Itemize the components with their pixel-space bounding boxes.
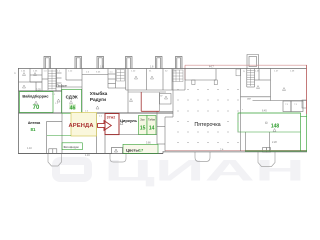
svg-text:2.28: 2.28 bbox=[272, 141, 277, 144]
wall x42 bbox=[41, 69, 43, 92]
top bump B2 bbox=[75, 57, 82, 69]
porch P2 bbox=[110, 154, 126, 162]
small room divider x66 bbox=[65, 69, 67, 81]
porch P1 bottom-left bbox=[48, 154, 62, 167]
room Zoo 15 (green) bbox=[139, 116, 148, 135]
outer wall: top bbox=[18, 68, 307, 70]
wall x82 bbox=[81, 69, 83, 114]
wall y80 right rooms bbox=[255, 79, 271, 81]
wall x172 bbox=[171, 69, 173, 91]
room red upper (141,92) bbox=[128, 91, 166, 93]
svg-text:Улыбка: Улыбка bbox=[90, 90, 108, 96]
wall x245.5 lower bbox=[245, 132, 247, 151]
vestibule walls bottom-left bbox=[46, 122, 48, 154]
outer wall: bottom-left bbox=[18, 153, 163, 155]
wall x269.5 lower bbox=[269, 132, 271, 151]
porch P1 door squares bbox=[49, 149, 53, 154]
outer wall: bottom step connector bbox=[162, 151, 164, 153]
svg-text:Продукт: Продукт bbox=[57, 83, 68, 87]
interior walls: middle top strip bbox=[82, 69, 185, 114]
svg-text:Зоо: Зоо bbox=[140, 117, 145, 121]
wc grid 1 bbox=[117, 70, 125, 82]
green line y135.5 bbox=[47, 135, 71, 137]
column dots in hall bbox=[178, 89, 239, 143]
svg-text:Фотофорум: Фотофорум bbox=[64, 145, 79, 149]
hall step y117 bbox=[165, 116, 173, 118]
hall top edge y80 bbox=[185, 79, 216, 81]
column stub 1 bbox=[192, 80, 195, 85]
ZU room bbox=[160, 94, 172, 105]
svg-text:СДЭК: СДЭК bbox=[66, 95, 78, 100]
wall x163 bbox=[162, 69, 164, 91]
watermark CIAN logo bbox=[56, 161, 88, 178]
wc grid 2 bbox=[173, 70, 184, 82]
wall y75 small bbox=[30, 74, 42, 76]
svg-text:щ: щ bbox=[243, 71, 245, 73]
wall y87 prodmag bbox=[56, 86, 82, 88]
room Wildberries (green) bbox=[20, 92, 54, 113]
svg-text:81: 81 bbox=[30, 127, 36, 132]
svg-text:Пятерочка: Пятерочка bbox=[194, 122, 220, 128]
wall y82 bbox=[19, 81, 43, 83]
interior walls: middle row bbox=[19, 69, 217, 154]
wall y100.5 bbox=[253, 100, 307, 102]
room rental red 37m2 bbox=[105, 114, 119, 135]
top chimney B7 bbox=[247, 55, 259, 69]
svg-text:44.7: 44.7 bbox=[209, 66, 214, 69]
wall y88 bbox=[108, 87, 126, 89]
wall y91 WB top bbox=[19, 90, 62, 92]
svg-text:1.16: 1.16 bbox=[85, 154, 90, 157]
wall x61.5 corridor bbox=[61, 84, 63, 113]
corridor band y74.5 bbox=[82, 74, 108, 76]
stair hatch 1 bbox=[48, 70, 56, 90]
wall y134.5 rooms bottom bbox=[105, 134, 157, 136]
corridor line y113 bbox=[19, 112, 174, 114]
outer wall: bottom-right bbox=[163, 151, 307, 153]
interior walls: right block bbox=[241, 69, 307, 152]
outer wall: left bbox=[18, 68, 20, 154]
wall x240.5 bbox=[240, 69, 242, 152]
cell strip x56-61.5 bbox=[56, 69, 58, 88]
room Cvety 17 (green) bbox=[123, 144, 158, 153]
top bump B4 bbox=[126, 57, 133, 69]
wall x157 bbox=[156, 112, 158, 145]
svg-text:46: 46 bbox=[70, 105, 76, 111]
svg-text:Вайлдберрис: Вайлдберрис bbox=[22, 94, 49, 99]
wall x270.5 bbox=[270, 69, 272, 101]
svg-text:Цветы: Цветы bbox=[126, 147, 139, 152]
top bump B1 bbox=[44, 57, 51, 69]
wall x185 block edge bbox=[184, 69, 186, 91]
porch P4 door squares bbox=[263, 148, 267, 152]
small box near x240 bbox=[236, 69, 241, 76]
outer wall: right upper (red) bbox=[306, 65, 308, 114]
svg-text:5.35: 5.35 bbox=[36, 88, 41, 91]
room SDEK (green) bbox=[62, 89, 82, 113]
tiny room labels top strip bbox=[21, 71, 298, 118]
porch P4 bottom-right bbox=[258, 152, 275, 167]
wall x30 bbox=[29, 69, 31, 83]
hall top stub x216 bbox=[215, 69, 217, 80]
stair hatch 3 bbox=[247, 69, 255, 86]
stair strip 1 x48-56 bbox=[47, 69, 49, 91]
stair strip 3 bbox=[246, 69, 248, 88]
wall y90 strip bottom bbox=[126, 89, 185, 91]
svg-text:14: 14 bbox=[149, 125, 155, 131]
svg-text:15: 15 bbox=[140, 125, 146, 131]
svg-text:5.86: 5.86 bbox=[146, 142, 151, 145]
right edge inner box bbox=[302, 100, 307, 108]
room Fotoforum (green) bbox=[62, 143, 82, 150]
outer right green bbox=[306, 114, 308, 151]
top bump B6 bbox=[176, 57, 183, 69]
top bump B5 bbox=[156, 57, 163, 69]
room Tabak 14 (green) bbox=[147, 116, 156, 135]
bottom entrance box bbox=[112, 148, 123, 154]
wall x128 bbox=[127, 69, 129, 114]
arrow red bbox=[98, 121, 112, 131]
svg-text:70: 70 bbox=[33, 105, 40, 111]
small cells x42-48 bbox=[42, 78, 48, 80]
svg-text:1.10: 1.10 bbox=[27, 147, 32, 150]
svg-text:Табак: Табак bbox=[148, 117, 156, 121]
svg-text:АРЕНДА: АРЕНДА bbox=[69, 123, 95, 129]
svg-text:148: 148 bbox=[271, 123, 280, 129]
corridor walls to entrance bbox=[104, 135, 106, 154]
svg-text:37м2: 37м2 bbox=[107, 116, 116, 120]
wall x62 apteka right bbox=[61, 113, 63, 154]
wall y111.5 to hall bbox=[160, 111, 174, 113]
red premises boundary (Pyaterochka block) bbox=[185, 65, 307, 114]
outer wall: bottom-right red companion bbox=[165, 149, 307, 151]
svg-text:17: 17 bbox=[139, 147, 144, 152]
column stub 2 bbox=[214, 80, 217, 85]
wall x108 bbox=[107, 69, 109, 89]
top bump B3 bbox=[97, 57, 104, 69]
wall x146.5 bbox=[146, 69, 148, 91]
svg-text:т: т bbox=[242, 109, 243, 111]
wc boxes right bbox=[283, 101, 291, 112]
interior walls: left small rooms block bbox=[19, 69, 83, 114]
svg-text:осн: осн bbox=[247, 98, 252, 101]
room 148 (green) bbox=[238, 113, 301, 151]
dimension texts bbox=[27, 66, 277, 157]
svg-text:6.45: 6.45 bbox=[262, 110, 267, 113]
porch P3 bbox=[195, 152, 210, 162]
door triangles bbox=[23, 73, 286, 132]
hall left lower x165 bbox=[164, 117, 166, 151]
hall left edge x173 bbox=[172, 69, 174, 117]
svg-text:Циркуль: Циркуль bbox=[120, 118, 138, 123]
svg-text:Радуги: Радуги bbox=[90, 97, 106, 102]
svg-text:Аптека: Аптека bbox=[28, 121, 41, 125]
room ARENDA yellow bbox=[71, 113, 97, 137]
wall x125.8 bbox=[125, 69, 127, 91]
cells column x108-115.5 bbox=[115, 69, 117, 89]
svg-text:чт: чт bbox=[15, 72, 17, 74]
